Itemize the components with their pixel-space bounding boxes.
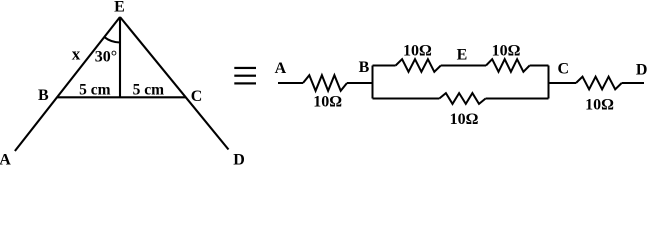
svg-text:D: D: [233, 151, 245, 166]
svg-text:E: E: [457, 47, 468, 64]
svg-text:B: B: [38, 87, 49, 104]
svg-text:10Ω: 10Ω: [585, 96, 614, 113]
svg-text:30°: 30°: [95, 48, 117, 65]
svg-text:A: A: [275, 60, 287, 77]
svg-text:B: B: [359, 59, 370, 76]
svg-text:C: C: [558, 60, 570, 77]
svg-text:10Ω: 10Ω: [450, 111, 479, 128]
svg-text:10Ω: 10Ω: [313, 93, 342, 110]
svg-text:5 cm: 5 cm: [133, 82, 165, 99]
svg-text:5 cm: 5 cm: [79, 82, 111, 99]
svg-text:10Ω: 10Ω: [403, 42, 432, 59]
svg-text:C: C: [191, 88, 203, 105]
svg-text:10Ω: 10Ω: [492, 42, 521, 59]
svg-text:x: x: [72, 44, 81, 63]
svg-text:D: D: [636, 62, 648, 79]
svg-text:A: A: [0, 151, 11, 166]
svg-text:E: E: [114, 0, 125, 16]
